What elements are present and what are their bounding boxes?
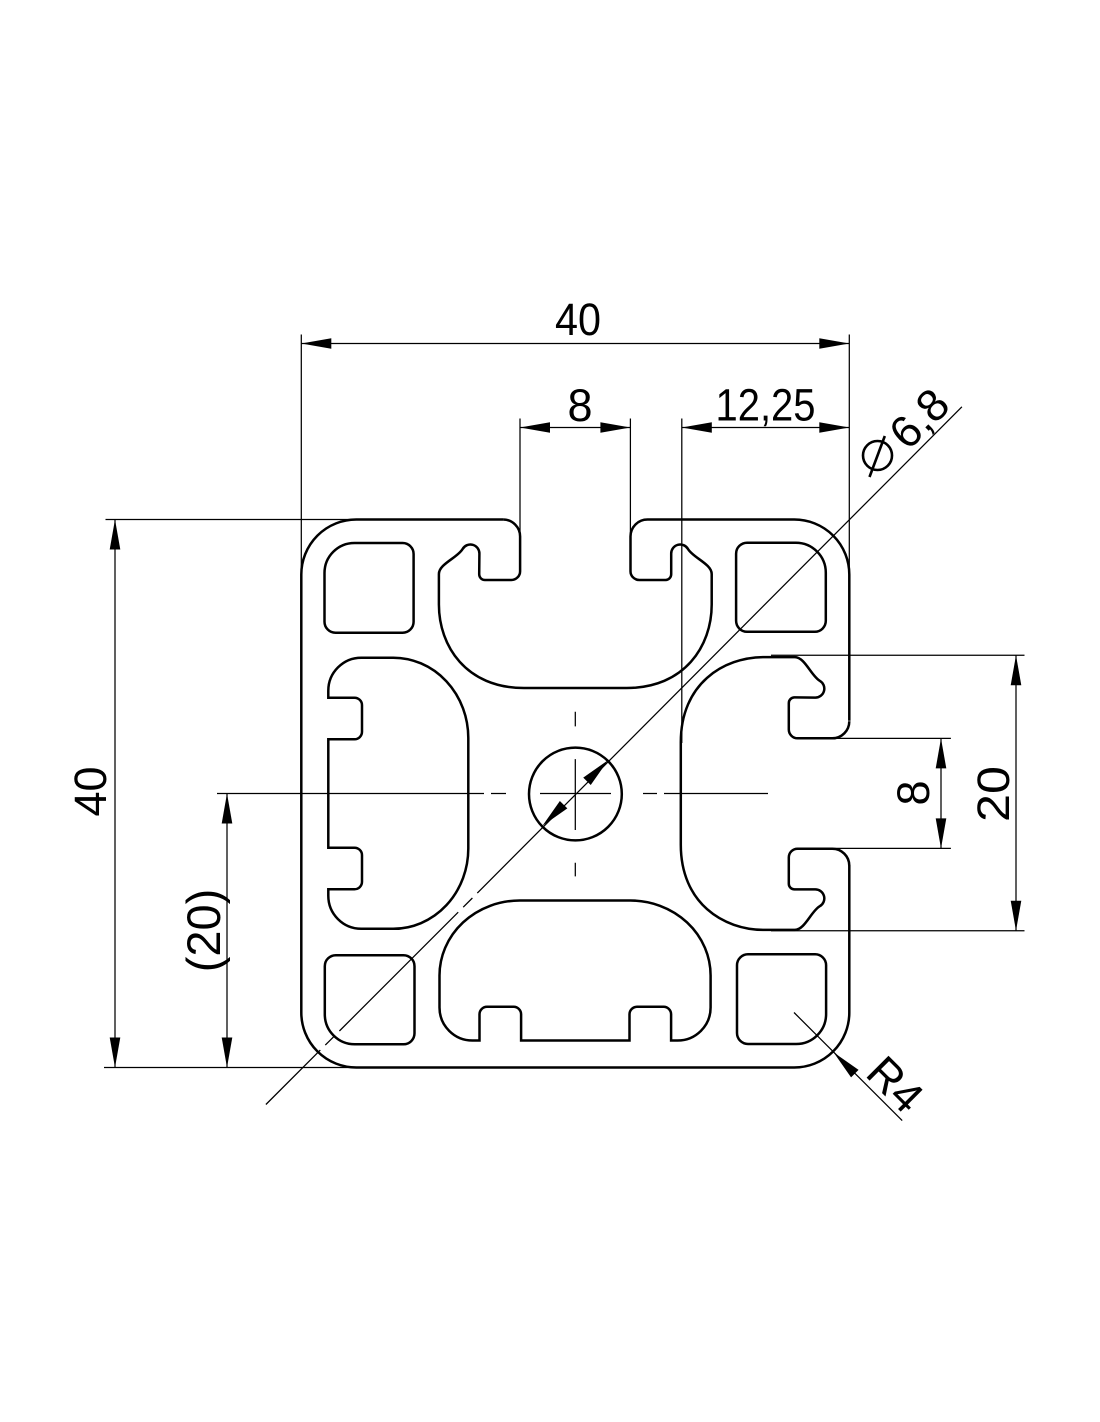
arrow diameter upper: [583, 756, 612, 785]
R4 leader: [794, 1013, 902, 1121]
dimension line 20 right: [1015, 655, 1017, 930]
arrow 40 left top: [110, 520, 121, 550]
closed slot left: [328, 658, 468, 929]
profile outer frame 40x40 with slot gaps: [301, 520, 849, 1068]
extension line slot 8 left: [519, 419, 521, 537]
arrow R4: [830, 1049, 859, 1078]
arrow 40 top right: [819, 338, 849, 349]
arrow 8 top left: [520, 422, 550, 433]
corner hole BR: [737, 954, 826, 1044]
dimension line 8 right: [940, 738, 942, 848]
open T-slot top: [439, 520, 712, 689]
arrow 20 right bottom: [1011, 901, 1022, 931]
arrow 8 top right: [600, 422, 630, 433]
extension line right profile top: [848, 335, 850, 575]
arrow 12,25 right: [819, 422, 849, 433]
svg-text:12,25: 12,25: [716, 380, 816, 431]
arrow diameter lower: [539, 801, 568, 830]
arrow 12,25 left: [682, 422, 712, 433]
corner hole TL: [325, 543, 414, 633]
extension line slot 8 right: [629, 419, 631, 537]
dimension line 40 top: [301, 343, 849, 345]
center bore circle: [529, 748, 622, 841]
svg-text:8: 8: [567, 380, 592, 431]
svg-text:8: 8: [888, 780, 939, 805]
arrow 40 top left: [301, 338, 331, 349]
extension line 8 right upper: [830, 737, 951, 739]
svg-text:40: 40: [65, 766, 116, 816]
dimension line 12,25: [682, 427, 850, 429]
svg-text:6,8: 6,8: [879, 378, 959, 458]
corner hole BL: [325, 955, 415, 1044]
closed slot bottom (rotated copy): [440, 901, 711, 1041]
arrow 8 right bottom: [936, 818, 947, 848]
svg-text:(20): (20): [177, 889, 230, 973]
arrow (20) top: [222, 794, 233, 824]
centerline horizontal: [217, 793, 768, 795]
svg-text:40: 40: [555, 294, 601, 345]
arrow (20) bottom: [222, 1038, 233, 1068]
extension line top face left: [106, 519, 357, 521]
dimension line (20) left: [226, 794, 228, 1068]
corner hole TR: [736, 543, 826, 632]
dimension line 8 top: [520, 427, 630, 429]
centerline vertical: [574, 712, 576, 877]
diameter symbol: [863, 436, 892, 477]
extension line 12,25 inner: [681, 419, 683, 744]
arrow 20 right top: [1011, 655, 1022, 685]
dimension line 40 left: [114, 520, 116, 1068]
extension line 8 right lower: [830, 847, 951, 849]
svg-text:R4: R4: [857, 1046, 934, 1123]
diagonal diameter leader: [266, 407, 962, 1105]
arrow 40 left bottom: [110, 1038, 121, 1068]
open T-slot right (rotated copy): [681, 657, 850, 930]
svg-text:20: 20: [968, 766, 1019, 822]
extension line left profile top: [300, 335, 302, 575]
extension line 20 right lower: [771, 930, 1025, 932]
arrow 8 right top: [936, 738, 947, 768]
extension line 20 right upper: [771, 654, 1025, 656]
extension line bottom face left: [104, 1067, 356, 1069]
